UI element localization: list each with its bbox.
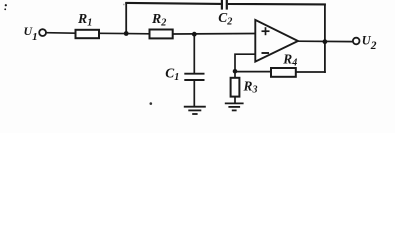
- svg-text:U1: U1: [24, 24, 38, 43]
- wire C1 to ground: [193, 80, 195, 107]
- wire op-amp minus input left and down to node C: [235, 54, 255, 71]
- top rail right of C2: [228, 3, 326, 6]
- resistor R2: [150, 30, 173, 39]
- resistor R4: [271, 68, 296, 77]
- capacitor C1: [184, 74, 204, 80]
- wire op-amp output: [298, 40, 353, 42]
- top rail left of C2: [125, 3, 221, 4]
- svg-text:R3: R3: [243, 78, 258, 95]
- ground under R3: [225, 103, 244, 110]
- svg-text:R2: R2: [151, 11, 166, 28]
- node B junction dot: [192, 32, 197, 37]
- ground under C1: [184, 107, 206, 114]
- op-amp U1: [255, 20, 298, 62]
- wire R3 to ground: [234, 97, 236, 104]
- svg-text:U2: U2: [362, 33, 377, 52]
- wire node C to R4: [235, 71, 271, 73]
- wire node A up: [125, 2, 127, 34]
- svg-text:R4: R4: [282, 51, 297, 68]
- speck top-left: [5, 4, 7, 6]
- speck bottom middle: [150, 102, 153, 105]
- wire output node down to R4: [324, 42, 326, 74]
- node A junction dot: [124, 31, 129, 36]
- wire node B down to C1: [193, 34, 195, 74]
- wire R2 to node B to op-amp: [173, 33, 256, 36]
- svg-text:C2: C2: [218, 10, 232, 27]
- capacitor C2: [222, 0, 227, 10]
- output node junction dot: [323, 39, 328, 44]
- input terminal circle: [39, 29, 46, 36]
- op-amp plus sign: [262, 27, 270, 35]
- svg-text:R1: R1: [77, 11, 92, 28]
- node C junction dot: [233, 69, 238, 74]
- svg-text:C1: C1: [165, 66, 179, 83]
- wire R4 to output branch: [296, 71, 326, 73]
- resistor R1: [76, 30, 100, 38]
- wire R1 to node A to R2: [99, 32, 150, 35]
- wire input to R1: [46, 32, 76, 35]
- op-amp minus sign: [262, 52, 270, 54]
- output terminal circle: [353, 38, 360, 45]
- resistor R3: [231, 78, 240, 97]
- speck top middle: [123, 4, 125, 6]
- wire node C down to R3: [234, 71, 236, 78]
- wire top rail down to output node: [324, 4, 326, 42]
